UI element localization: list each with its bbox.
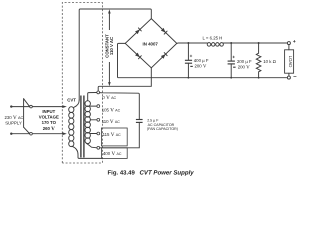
svg-text:400 µ F: 400 µ F bbox=[194, 58, 209, 63]
wire top rail (110 V AC to bridge apex) bbox=[79, 9, 151, 100]
svg-text:+: + bbox=[232, 54, 235, 59]
svg-text:SUPPLY: SUPPLY bbox=[5, 121, 22, 126]
node dot B (200uF top) bbox=[230, 42, 232, 44]
supply terminal bottom bbox=[10, 133, 12, 135]
label INPUT VOLTAGE 170 TO 260 V bbox=[39, 109, 59, 132]
terminal 115 V AC bbox=[97, 132, 100, 135]
wire AC return (0 V tap to bridge bottom vertex) bbox=[98, 68, 151, 91]
wire primary bottom lead bbox=[72, 146, 102, 158]
box around 115 V AC bbox=[101, 128, 127, 146]
capacitor C2 200uF 200V bbox=[228, 43, 252, 78]
node dot C (10k top) bbox=[258, 42, 260, 44]
transformer core bbox=[80, 96, 82, 158]
node dot A (400uF top) bbox=[187, 42, 189, 44]
terminal 400 V AC bbox=[97, 146, 100, 149]
svg-text:VOLTAGE: VOLTAGE bbox=[39, 115, 59, 120]
resistor R1 10 kOhm bbox=[256, 43, 276, 78]
bridge rectifier diamond bbox=[125, 19, 177, 68]
transformer primary winding bbox=[69, 107, 74, 147]
svg-text:CVT Power Supply: CVT Power Supply bbox=[140, 170, 195, 177]
wire 0V tap to fan capacitor bbox=[100, 93, 140, 120]
wire input bottom with arrow bbox=[32, 133, 64, 135]
wire tap lead 105V bbox=[90, 105, 96, 107]
wire primary top lead bbox=[74, 100, 80, 107]
node dot E (200uF bottom) bbox=[230, 77, 232, 79]
dimension arrow CONSTANT 110 V AC bbox=[105, 9, 116, 86]
diode D4 bottom-right edge bbox=[161, 53, 167, 59]
load - terminal bbox=[287, 76, 290, 79]
terminal 110 V AC bbox=[97, 118, 100, 121]
wire fan capacitor bottom to 400V tap wire bbox=[100, 122, 140, 147]
svg-text:LOAD: LOAD bbox=[288, 56, 293, 68]
svg-text:+: + bbox=[190, 54, 193, 59]
node dot F (10k bottom) bbox=[258, 77, 260, 79]
terminal 105 V AC bbox=[97, 105, 100, 108]
load box bbox=[285, 45, 294, 77]
svg-text:CVT: CVT bbox=[67, 98, 76, 103]
wire DC positive rail (bridge right vertex to load top) bbox=[177, 42, 288, 44]
svg-text:(FAN CAPACITOR): (FAN CAPACITOR) bbox=[147, 127, 178, 131]
svg-text:10 k Ω: 10 k Ω bbox=[263, 59, 276, 64]
wire DC negative rail (bridge left vertex to load bottom) bbox=[118, 43, 288, 77]
node dot D (400uF bottom) bbox=[188, 77, 190, 79]
terminal 0 V AC bbox=[97, 91, 100, 94]
CVT dashed enclosure bbox=[62, 3, 102, 164]
svg-text:110 V AC: 110 V AC bbox=[109, 37, 114, 55]
svg-text:2.5 µ F: 2.5 µ F bbox=[147, 119, 159, 123]
wire secondary bottom lead to 400V tap bbox=[87, 143, 97, 147]
svg-text:INPUT: INPUT bbox=[42, 109, 55, 114]
supply terminal top bbox=[10, 105, 12, 107]
diode D3 bottom-left edge bbox=[135, 52, 141, 58]
wire tap lead 115V bbox=[90, 133, 96, 135]
svg-text:Fig. 43.49: Fig. 43.49 bbox=[108, 170, 136, 177]
diode D2 top-right edge bbox=[161, 28, 167, 34]
box around 400 V AC bbox=[101, 148, 127, 159]
transformer secondary winding bbox=[85, 101, 90, 144]
capacitor C3 fan capacitor 2.5uF bbox=[136, 119, 143, 121]
load + terminal bbox=[287, 42, 290, 45]
svg-text:+: + bbox=[293, 39, 296, 45]
wire input top with arrow bbox=[32, 106, 64, 108]
svg-text:170 TO: 170 TO bbox=[42, 120, 57, 125]
inductor L = 6.25 H bbox=[203, 35, 224, 46]
wire tap lead 110V bbox=[90, 119, 96, 121]
svg-text:IN 4007: IN 4007 bbox=[143, 42, 159, 47]
svg-text:L = 6.25 H: L = 6.25 H bbox=[203, 35, 223, 40]
diode D1 top-left edge bbox=[135, 28, 141, 34]
switch S1 bbox=[11, 99, 32, 135]
wire secondary top lead to 0V tap bbox=[88, 93, 97, 101]
capacitor C1 400uF 200V bbox=[185, 43, 209, 78]
